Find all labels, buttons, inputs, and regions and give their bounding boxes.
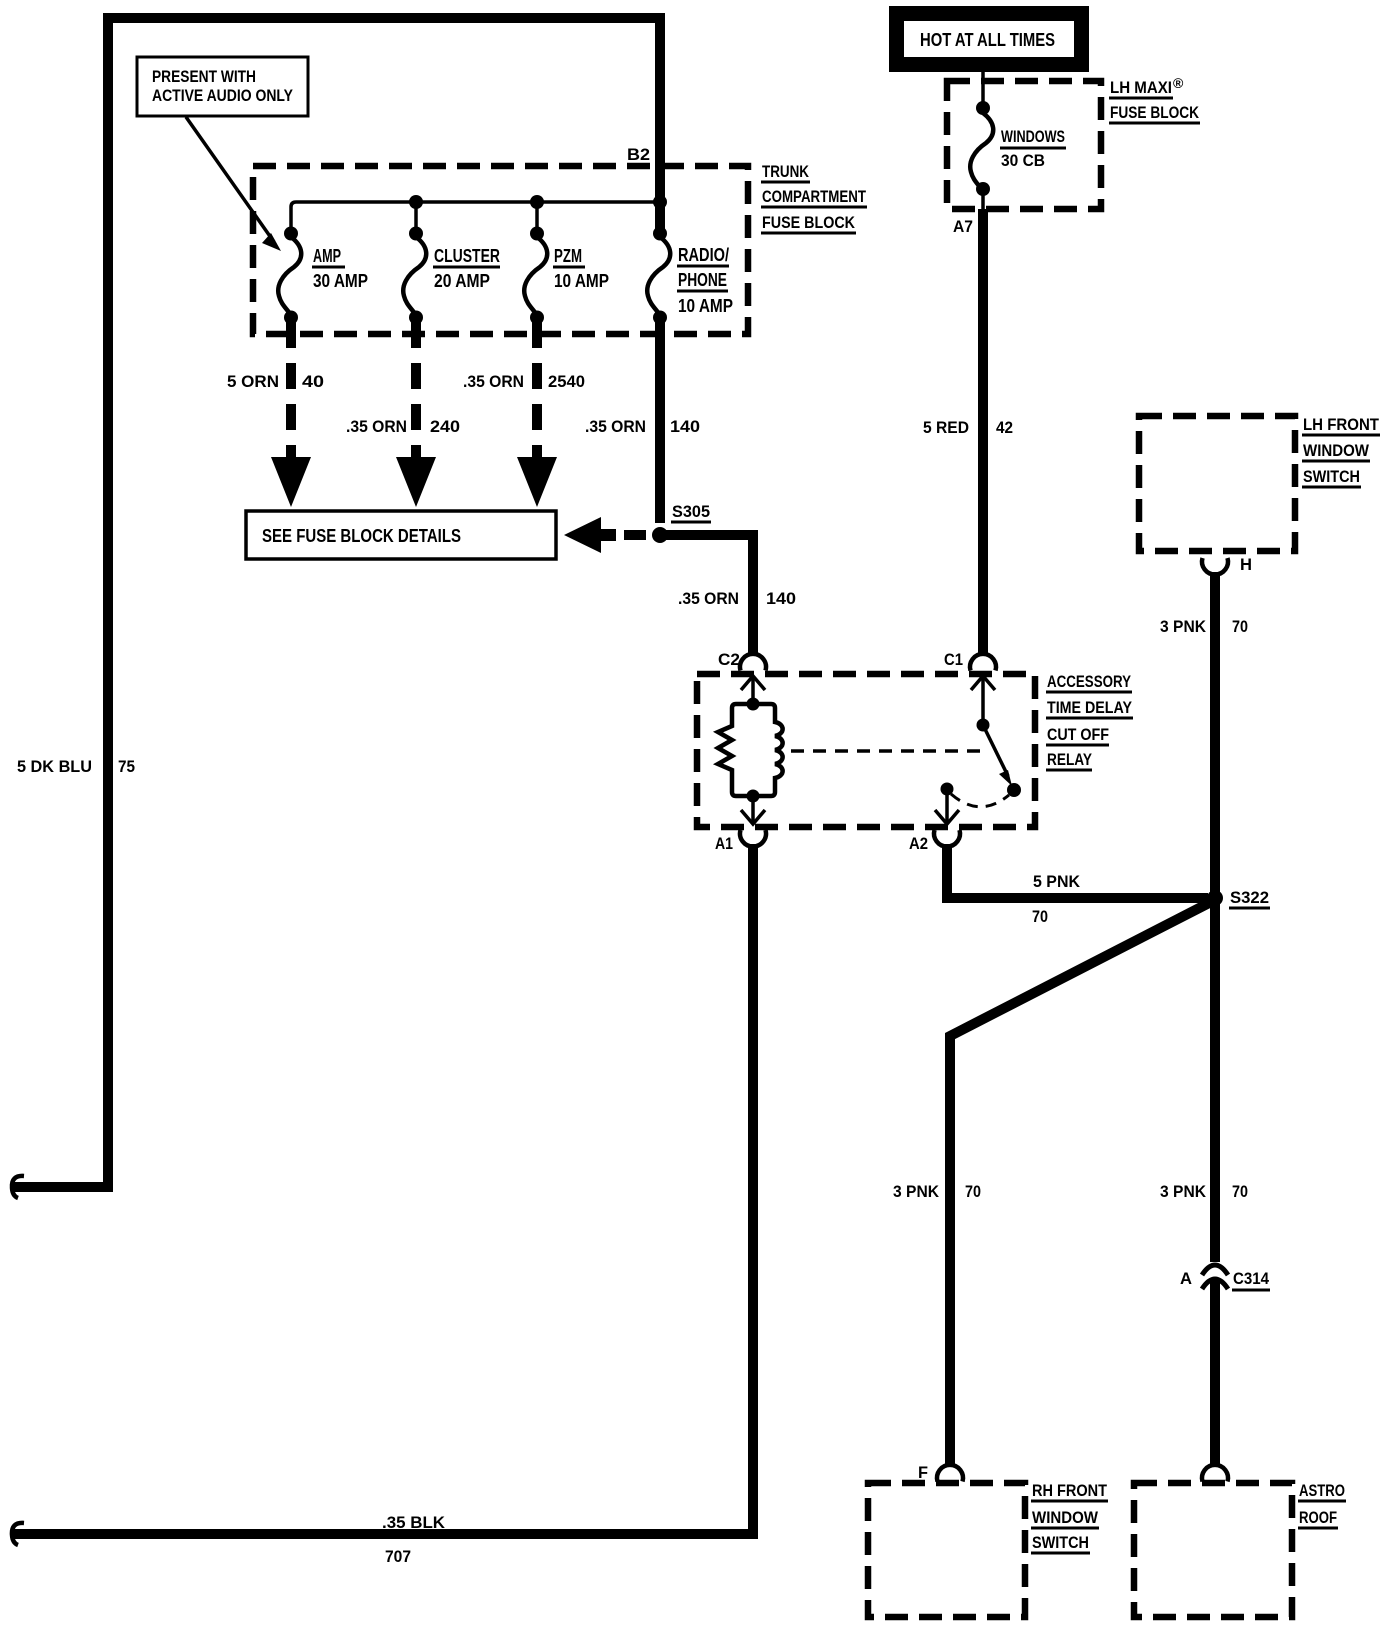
bus stubs to fuse tops bbox=[414, 202, 418, 228]
svg-text:30 CB: 30 CB bbox=[1001, 151, 1045, 170]
svg-text:707: 707 bbox=[385, 1547, 411, 1566]
svg-text:20 AMP: 20 AMP bbox=[434, 271, 490, 291]
svg-text:RH FRONT: RH FRONT bbox=[1032, 1481, 1108, 1500]
svg-text:H: H bbox=[1240, 555, 1252, 574]
svg-text:10 AMP: 10 AMP bbox=[554, 271, 609, 291]
connector C2 bbox=[740, 654, 766, 671]
fuse CLUSTER 20 AMP bbox=[409, 227, 423, 241]
svg-text:RELAY: RELAY bbox=[1047, 750, 1093, 769]
svg-text:TIME DELAY: TIME DELAY bbox=[1047, 698, 1133, 717]
wire: 5 DK BLU main loop (top + left side) bbox=[14, 18, 660, 1187]
dash segment between arrow and S305 node bbox=[624, 530, 646, 540]
svg-text:3 PNK: 3 PNK bbox=[1160, 1182, 1207, 1201]
connector C1 bbox=[970, 654, 996, 671]
svg-text:C314: C314 bbox=[1233, 1269, 1269, 1288]
wire: continuation hook bottom left of 5 DK BLU wire bbox=[12, 1176, 24, 1198]
svg-text:5 RED: 5 RED bbox=[923, 418, 969, 437]
svg-text:3 PNK: 3 PNK bbox=[1160, 617, 1207, 636]
LH front window switch dashed box bbox=[1139, 416, 1295, 551]
terminal C1 arrow into relay bbox=[971, 676, 995, 690]
svg-text:SEE FUSE BLOCK DETAILS: SEE FUSE BLOCK DETAILS bbox=[262, 526, 461, 546]
svg-text:AMP: AMP bbox=[313, 246, 341, 266]
svg-text:2540: 2540 bbox=[548, 372, 585, 391]
svg-text:HOT AT ALL TIMES: HOT AT ALL TIMES bbox=[920, 30, 1055, 50]
fuse PZM 10 AMP bbox=[530, 227, 544, 241]
node: switch pivot bbox=[977, 719, 990, 732]
svg-text:.35 ORN: .35 ORN bbox=[346, 417, 407, 436]
svg-text:75: 75 bbox=[118, 757, 135, 776]
svg-text:.35 BLK: .35 BLK bbox=[382, 1513, 446, 1532]
connector at astro roof bbox=[1202, 1465, 1228, 1482]
wire: S322 diagonal down to RH front window switch branch bbox=[950, 902, 1211, 1464]
svg-text:5 PNK: 5 PNK bbox=[1033, 872, 1081, 891]
box SEE FUSE BLOCK DETAILS bbox=[246, 511, 556, 559]
circuit breaker WINDOWS 30 CB bbox=[981, 72, 985, 103]
svg-text:FUSE BLOCK: FUSE BLOCK bbox=[762, 213, 856, 232]
svg-text:70: 70 bbox=[1232, 1182, 1248, 1201]
wire: A2 to S322, 5 PNK 70 bbox=[947, 844, 1208, 898]
svg-text:LH FRONT: LH FRONT bbox=[1303, 415, 1380, 434]
svg-text:40: 40 bbox=[302, 372, 324, 391]
svg-text:SWITCH: SWITCH bbox=[1303, 467, 1360, 486]
svg-text:.35 ORN: .35 ORN bbox=[678, 589, 739, 608]
svg-text:A1: A1 bbox=[715, 834, 733, 853]
svg-text:C1: C1 bbox=[944, 650, 963, 669]
svg-text:LH MAXI: LH MAXI bbox=[1110, 78, 1172, 97]
relay coil: inductor bump right branch bbox=[753, 704, 783, 796]
terminal A1 arrow out of relay bbox=[751, 796, 755, 822]
svg-text:30 AMP: 30 AMP bbox=[313, 271, 368, 291]
svg-text:®: ® bbox=[1173, 75, 1184, 91]
junction node dots on bus bbox=[409, 195, 423, 209]
connector A1 bbox=[740, 830, 766, 847]
relay coil: resistor zigzag left branch bbox=[718, 704, 753, 796]
node S305 bbox=[652, 527, 668, 543]
svg-text:ACTIVE AUDIO ONLY: ACTIVE AUDIO ONLY bbox=[152, 86, 294, 105]
svg-text:A2: A2 bbox=[909, 834, 928, 853]
svg-text:ASTRO: ASTRO bbox=[1299, 1481, 1345, 1500]
note box: PRESENT WITH ACTIVE AUDIO ONLY bbox=[137, 57, 308, 116]
svg-text:CLUSTER: CLUSTER bbox=[434, 246, 500, 266]
box HOT AT ALL TIMES bbox=[889, 6, 1089, 72]
svg-text:PRESENT WITH: PRESENT WITH bbox=[152, 67, 256, 86]
fuse RADIO/PHONE 10 AMP bbox=[653, 227, 667, 241]
connector C314 pin A bbox=[1202, 1265, 1228, 1275]
svg-text:WINDOWS: WINDOWS bbox=[1001, 127, 1065, 146]
svg-text:70: 70 bbox=[965, 1182, 981, 1201]
svg-text:PHONE: PHONE bbox=[678, 270, 727, 290]
wire: RADIO fuse output down to S305 bbox=[655, 322, 665, 523]
svg-text:C2: C2 bbox=[718, 650, 740, 669]
svg-text:5 DK BLU: 5 DK BLU bbox=[17, 757, 92, 776]
svg-text:COMPARTMENT: COMPARTMENT bbox=[762, 187, 866, 206]
connector A2 bbox=[934, 830, 960, 847]
trunk compartment fuse block dashed box bbox=[253, 166, 748, 334]
node S322 bbox=[1207, 890, 1223, 906]
svg-text:SWITCH: SWITCH bbox=[1032, 1533, 1089, 1552]
leader arrow from note box to AMP fuse bbox=[186, 117, 274, 242]
svg-text:3 PNK: 3 PNK bbox=[893, 1182, 940, 1201]
wire: dashed arrow from CLUSTER fuse bbox=[411, 322, 421, 458]
arrow pointing left into details box bbox=[564, 517, 616, 553]
wire: H down to S322, 3 PNK 70 bbox=[1210, 572, 1220, 893]
wire: C314 to astro roof bbox=[1210, 1281, 1220, 1464]
svg-text:B2: B2 bbox=[627, 145, 650, 164]
continuation hook bottom left of .35 BLK wire bbox=[12, 1523, 24, 1545]
terminal A2 arrow out of relay bbox=[945, 789, 949, 822]
wire: A1 to ground run, .35 BLK 707 bbox=[14, 844, 753, 1534]
svg-text:ACCESSORY: ACCESSORY bbox=[1047, 672, 1132, 691]
wire: dashed arrow from AMP fuse to fuse details bbox=[286, 322, 296, 458]
svg-text:.35 ORN: .35 ORN bbox=[585, 417, 646, 436]
svg-text:5 ORN: 5 ORN bbox=[227, 372, 279, 391]
connector H bbox=[1202, 558, 1228, 575]
svg-text:TRUNK: TRUNK bbox=[762, 162, 810, 181]
RH front window switch dashed box bbox=[868, 1483, 1025, 1617]
node: switch fixed contact bbox=[1007, 783, 1021, 797]
svg-text:F: F bbox=[918, 1463, 928, 1482]
dashed mechanical link coil to switch bbox=[791, 749, 984, 753]
svg-text:240: 240 bbox=[430, 417, 460, 436]
fuse AMP 30 AMP bbox=[284, 227, 298, 241]
svg-text:140: 140 bbox=[766, 589, 796, 608]
svg-text:S305: S305 bbox=[672, 502, 710, 521]
wire: dashed arrow from PZM fuse bbox=[532, 322, 542, 458]
wire: S305 to relay C2 bbox=[666, 535, 753, 653]
svg-text:140: 140 bbox=[670, 417, 700, 436]
svg-text:ROOF: ROOF bbox=[1299, 1508, 1337, 1527]
svg-text:10 AMP: 10 AMP bbox=[678, 296, 733, 316]
svg-text:70: 70 bbox=[1032, 907, 1048, 926]
svg-text:.35 ORN: .35 ORN bbox=[463, 372, 524, 391]
wire: S322 down to C314, 3 PNK 70 bbox=[1210, 903, 1220, 1262]
bus wire inside fuse block bbox=[291, 202, 656, 230]
node: coil bottom bbox=[747, 790, 760, 803]
connector F bbox=[937, 1465, 963, 1482]
switch blade with arrowhead bbox=[983, 725, 1008, 776]
LH MAXI fuse block dashed box bbox=[947, 81, 1101, 209]
wire: A7 to relay C1, 5 RED 42 bbox=[978, 209, 988, 653]
svg-text:S322: S322 bbox=[1230, 888, 1269, 907]
relay dashed box: accessory time delay cut off relay bbox=[697, 674, 1035, 827]
svg-text:CUT OFF: CUT OFF bbox=[1047, 725, 1109, 744]
svg-text:FUSE BLOCK: FUSE BLOCK bbox=[1110, 103, 1200, 122]
svg-text:70: 70 bbox=[1232, 617, 1248, 636]
node: A2 contact bbox=[941, 783, 954, 796]
svg-text:PZM: PZM bbox=[554, 246, 582, 266]
svg-text:WINDOW: WINDOW bbox=[1032, 1508, 1099, 1527]
svg-text:A7: A7 bbox=[953, 217, 973, 236]
svg-text:A: A bbox=[1180, 1269, 1192, 1288]
node: coil top bbox=[747, 698, 760, 711]
astro roof dashed box bbox=[1134, 1483, 1292, 1617]
svg-text:RADIO/: RADIO/ bbox=[678, 245, 729, 265]
svg-text:42: 42 bbox=[996, 418, 1013, 437]
terminal C2 arrow into relay bbox=[741, 676, 765, 690]
svg-text:WINDOW: WINDOW bbox=[1303, 441, 1370, 460]
dashed travel arc to A2 bbox=[951, 794, 1009, 807]
